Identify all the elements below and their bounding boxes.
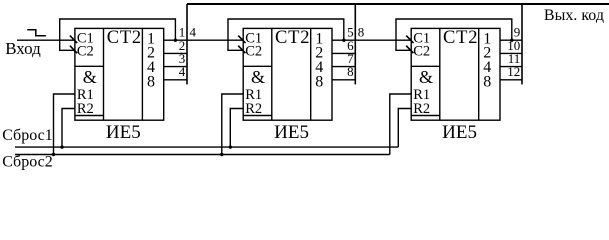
- svg-text:Вход: Вход: [5, 39, 41, 58]
- svg-text:&: &: [251, 67, 265, 87]
- svg-text:12: 12: [507, 64, 520, 79]
- counter DD3 ИЕ5: body outline: [411, 28, 500, 120]
- svg-text:R2: R2: [413, 101, 430, 117]
- wire: output 1 of DD2 feedback to C2 (up/over/down): [228, 19, 344, 50]
- bus vertical line collecting outputs of DD3: [521, 4, 523, 84]
- dynamic input arrow C2 of DD1: [70, 46, 77, 54]
- dynamic input arrow C1 of DD1: [70, 36, 77, 44]
- wire: output 12 of DD3 to bus: [500, 79, 522, 81]
- wire: output 1 of DD3 feedback to C2 (up/over/down): [396, 19, 512, 50]
- counter DD1 ИЕ5: body outline: [75, 28, 164, 120]
- junction dot R2-DD2 on Сброс1: [229, 145, 232, 148]
- wire: output 10 of DD3 to bus: [500, 52, 522, 54]
- wire: R2 of DD1 to Сброс1 rail: [62, 109, 75, 148]
- junction dot R1-DD1 on Сброс2: [52, 153, 55, 156]
- wire: R1 of DD1 to Сброс2 rail: [54, 94, 75, 155]
- svg-text:R2: R2: [77, 101, 94, 117]
- svg-text:8: 8: [147, 73, 155, 90]
- wire: output 11 of DD3 to bus: [500, 66, 522, 68]
- svg-text:8: 8: [483, 73, 491, 90]
- svg-text:C2: C2: [245, 43, 262, 59]
- wire: output 6 of DD2 to bus: [332, 52, 355, 54]
- wire: R1 of DD3 to Сброс2 rail: [390, 94, 411, 155]
- svg-text:4: 4: [179, 64, 186, 79]
- svg-text:&: &: [83, 67, 97, 87]
- counter DD2 ИЕ5: body outline: [243, 28, 332, 120]
- svg-text:4: 4: [190, 25, 197, 40]
- svg-text:ИЕ5: ИЕ5: [442, 122, 477, 143]
- junction dot on output 1 of DD1: [174, 39, 177, 42]
- net "Вых. код" top bus rail: [187, 3, 609, 5]
- bus vertical line collecting outputs of DD2: [354, 4, 356, 84]
- svg-text:8: 8: [347, 64, 354, 79]
- svg-text:CT2: CT2: [275, 28, 310, 48]
- wire: output 3 of DD1 to bus: [164, 66, 187, 68]
- svg-text:C2: C2: [413, 43, 430, 59]
- dynamic input arrow C2 of DD2: [238, 46, 245, 54]
- wire: Вход to C1 of DD1: [17, 39, 75, 41]
- wire: output 1 of DD1 feedback to C2 (up/over/down): [60, 19, 176, 50]
- svg-text:ИЕ5: ИЕ5: [106, 122, 141, 143]
- svg-text:Сброс2: Сброс2: [2, 153, 53, 170]
- junction dot R1-DD2 on Сброс2: [220, 153, 223, 156]
- junction dot on output 1 of DD2: [342, 39, 345, 42]
- wire: R1 of DD2 to Сброс2 rail: [222, 94, 243, 155]
- dynamic input arrow C1 of DD3: [406, 36, 413, 44]
- svg-text:R2: R2: [245, 101, 262, 117]
- wire: R2 of DD2 to Сброс1 rail: [230, 109, 243, 148]
- wire: output 2 of DD1 to bus: [164, 52, 187, 54]
- svg-text:8: 8: [358, 25, 365, 40]
- wire: R2 of DD3 to Сброс1 rail: [398, 109, 411, 148]
- svg-text:&: &: [419, 67, 433, 87]
- svg-text:CT2: CT2: [107, 28, 142, 48]
- wire: output 5 of DD2 to bus: [332, 39, 411, 41]
- svg-text:Сброс1: Сброс1: [2, 127, 53, 144]
- wire: output 4 of DD1 to bus: [164, 79, 187, 81]
- svg-text:ИЕ5: ИЕ5: [274, 122, 309, 143]
- junction dot on output 1 of DD3: [510, 39, 513, 42]
- net Сброс2 rail: [15, 154, 390, 156]
- dynamic input arrow C2 of DD3: [406, 46, 413, 54]
- junction dot R2-DD1 on Сброс1: [60, 145, 63, 148]
- net Сброс1 rail: [15, 146, 398, 148]
- svg-text:CT2: CT2: [443, 28, 478, 48]
- dynamic input arrow C1 of DD2: [238, 36, 245, 44]
- bus vertical line collecting outputs of DD1: [186, 4, 188, 84]
- svg-text:Вых. код: Вых. код: [544, 7, 604, 24]
- svg-text:C2: C2: [77, 43, 94, 59]
- wire: output 9 of DD3 to bus: [500, 39, 522, 41]
- wire: output 8 of DD2 to bus: [332, 79, 355, 81]
- input pulse symbol (falling edge): [27, 30, 46, 36]
- wire: output 7 of DD2 to bus: [332, 66, 355, 68]
- wire: output 1 of DD1 to bus: [164, 39, 244, 41]
- svg-text:8: 8: [315, 73, 323, 90]
